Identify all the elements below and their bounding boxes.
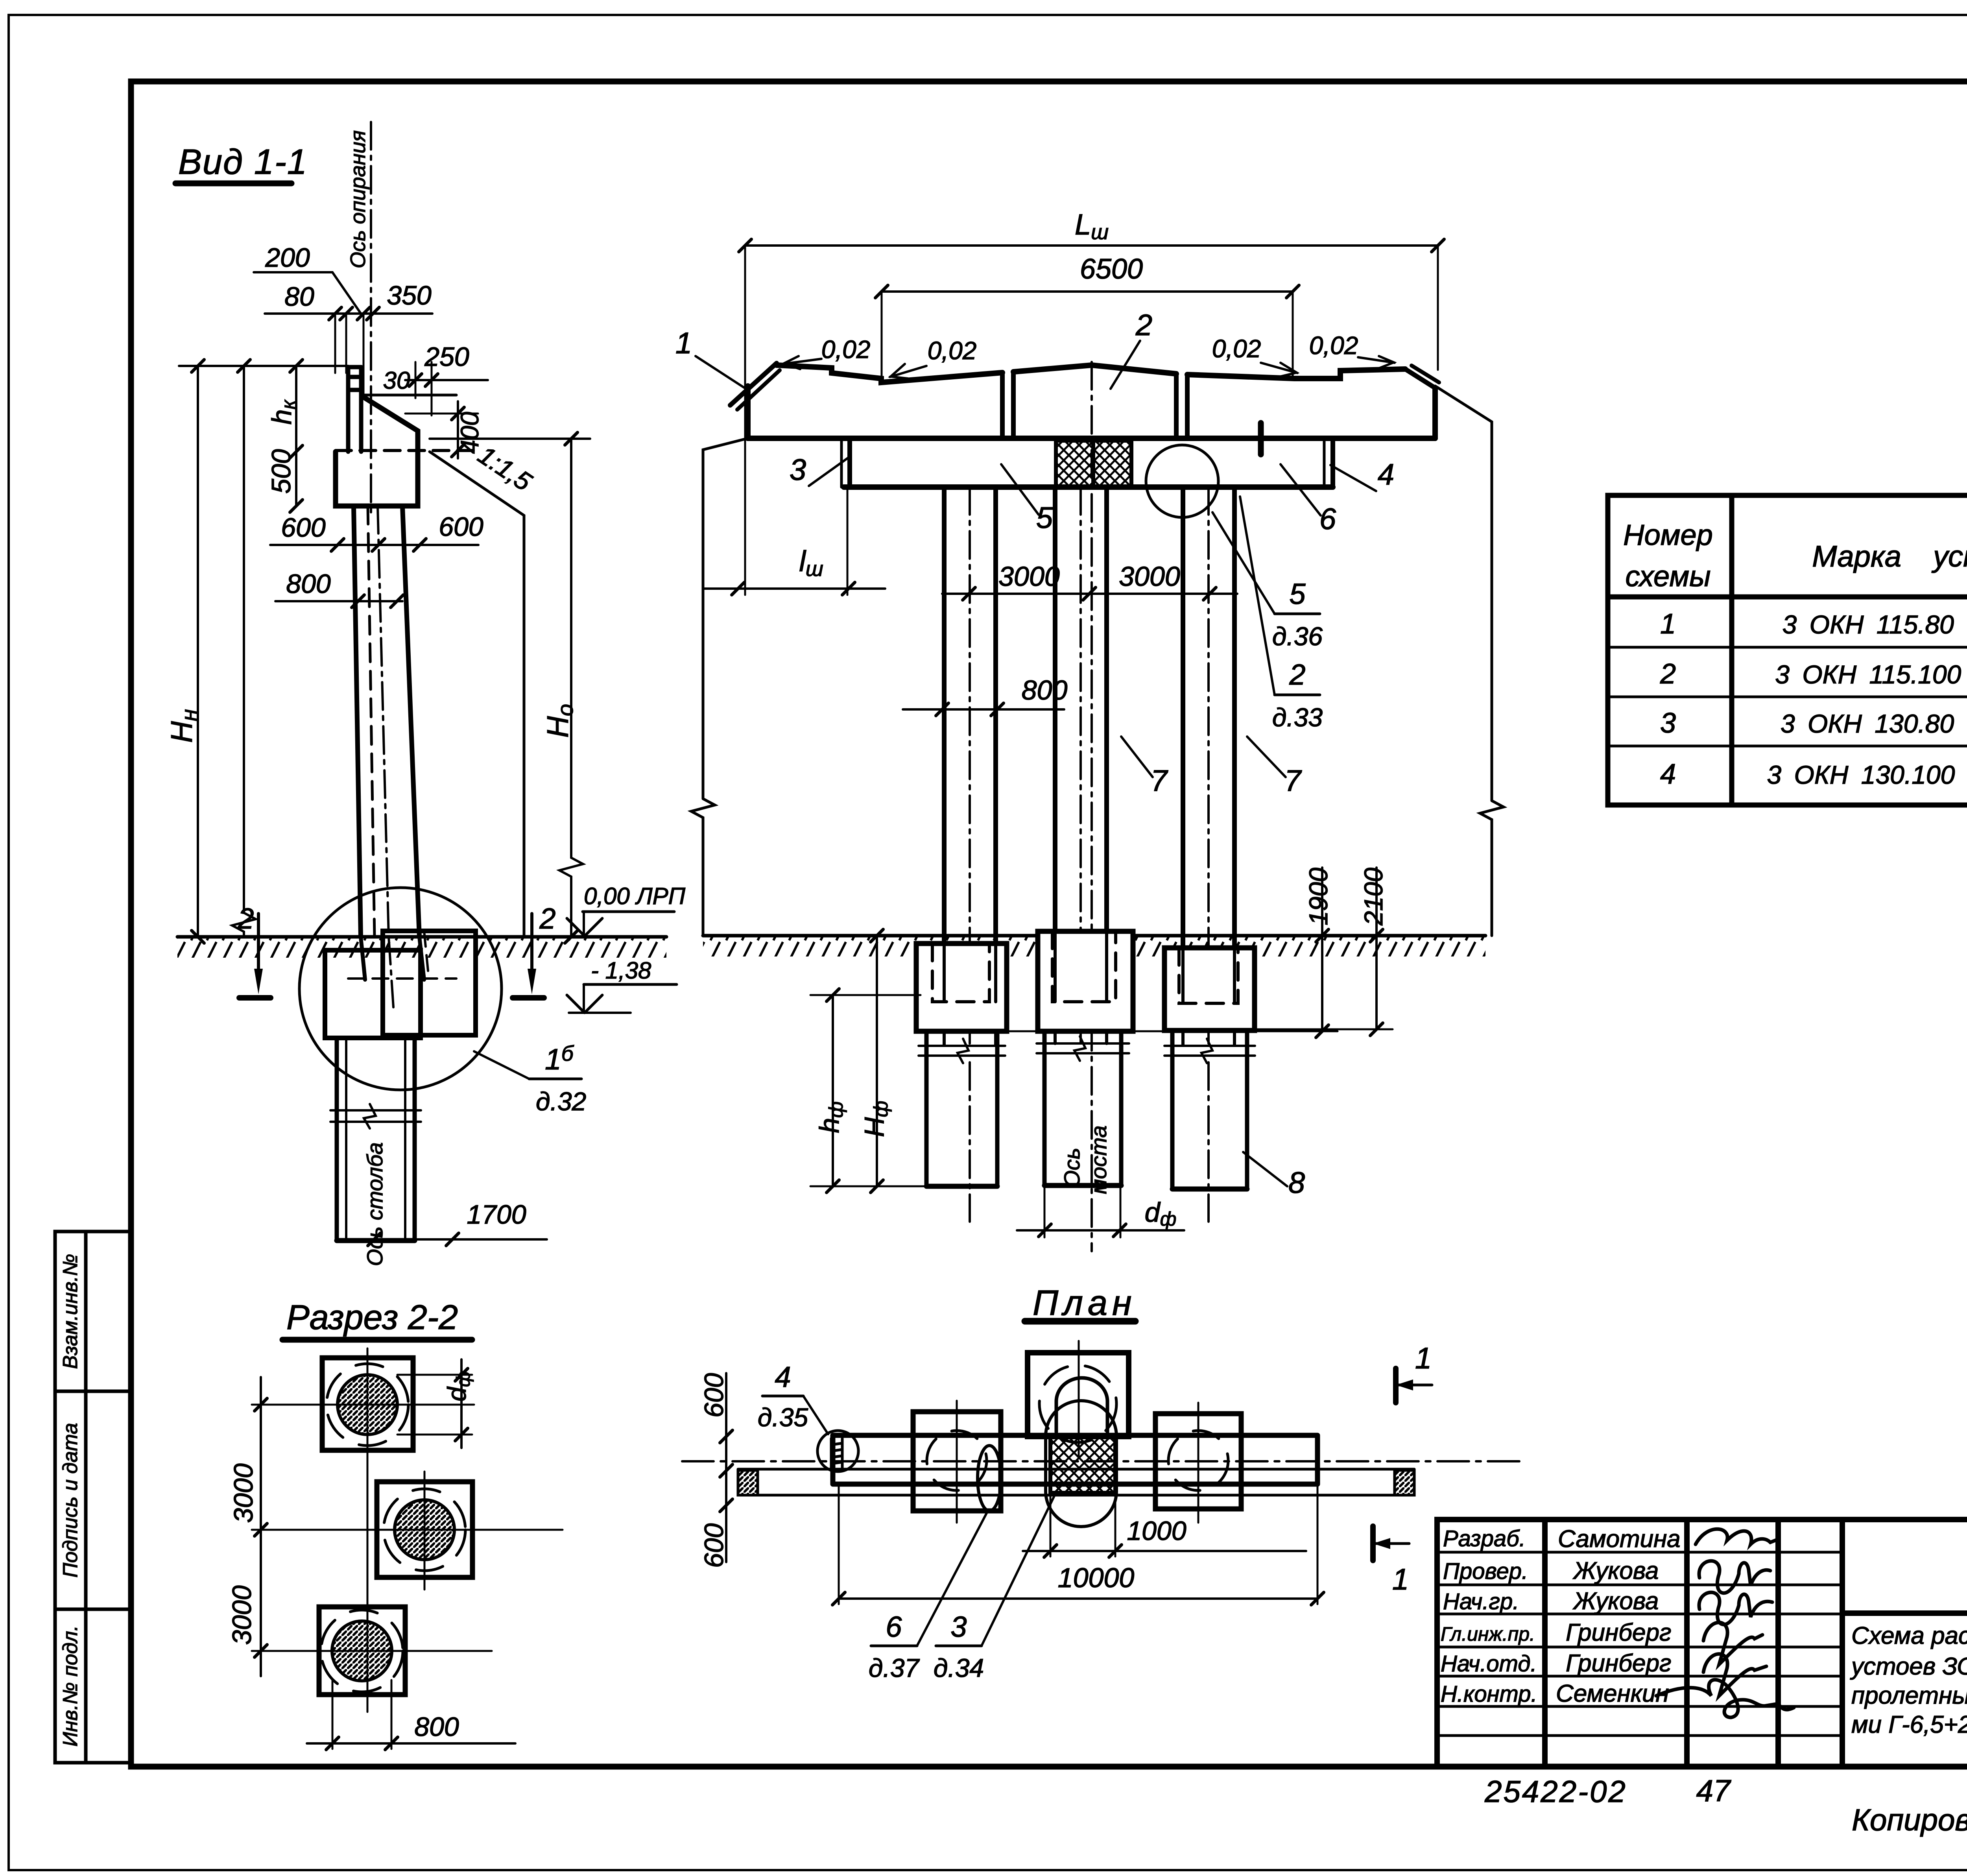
dim 800 bottom	[307, 1742, 515, 1745]
svg-text:500: 500	[266, 449, 296, 494]
dim 800	[275, 600, 402, 602]
svg-text:600: 600	[281, 513, 326, 543]
right wing and embankment edge	[1435, 386, 1504, 936]
svg-text:Схема расположения элементов: Схема расположения элементов	[1851, 1622, 1967, 1649]
svg-text:3: 3	[1660, 707, 1676, 739]
title block role labels	[1441, 1526, 1537, 1707]
description text	[1850, 1622, 1967, 1738]
cap block	[336, 452, 418, 506]
svg-text:ми Г-6,5+2* 0,75; Г- 6,5+ 2 х: ми Г-6,5+2* 0,75; Г- 6,5+ 2 х 1,5	[1851, 1711, 1967, 1738]
bearing oval	[978, 1446, 1001, 1511]
dim Hf	[876, 936, 878, 1186]
svg-text:6: 6	[1319, 502, 1336, 536]
svg-text:2: 2	[1135, 308, 1152, 342]
svg-text:800: 800	[1022, 675, 1068, 705]
svg-text:10000: 10000	[1058, 1562, 1135, 1593]
Ho top reference	[430, 438, 590, 440]
big oblong	[1046, 1401, 1116, 1527]
title block names	[1556, 1525, 1681, 1707]
svg-text:1900: 1900	[1304, 868, 1333, 925]
title block row lines	[1437, 1552, 1967, 1736]
top reference line	[179, 365, 348, 367]
section square 2	[377, 1482, 472, 1577]
table header texts	[1623, 508, 1967, 596]
table rows	[1660, 608, 1967, 790]
pile 1	[942, 487, 947, 944]
svg-text:д.35: д.35	[758, 1403, 808, 1432]
column continuation into foundation	[361, 937, 424, 980]
df extension lines	[1044, 1185, 1046, 1237]
Ho dim line with break	[559, 439, 583, 937]
svg-text:5: 5	[1289, 578, 1306, 610]
svg-text:4: 4	[775, 1361, 791, 1393]
hatched wall section plan	[1050, 1435, 1115, 1493]
cabinet wall	[348, 367, 361, 452]
bearing shelf	[361, 394, 456, 397]
foundation block A	[916, 944, 1007, 1031]
ground line left view	[177, 935, 666, 939]
signature squiggles	[1656, 1529, 1794, 1717]
svg-text:Ось столба: Ось столба	[362, 1142, 387, 1266]
dim 800	[903, 708, 1064, 711]
hidden socket lines	[348, 977, 456, 980]
svg-text:Ось опирания: Ось опирания	[346, 130, 370, 268]
svg-text:- 1,38: - 1,38	[591, 957, 651, 984]
svg-text:Гринберг: Гринберг	[1566, 1619, 1672, 1646]
slab body	[745, 386, 751, 438]
column axis	[378, 506, 389, 937]
hidden top of cap	[336, 449, 478, 452]
svg-text:600: 600	[439, 512, 483, 542]
svg-text:1: 1	[1415, 1342, 1432, 1375]
title block frame	[1437, 1520, 1967, 1767]
dim df section	[460, 1359, 463, 1448]
svg-text:1: 1	[1660, 608, 1676, 640]
bearing pad ladder left	[831, 1438, 842, 1469]
svg-text:0,02: 0,02	[821, 335, 871, 364]
svg-text:Вид 1-1: Вид 1-1	[178, 142, 308, 182]
dim hf	[832, 995, 834, 1186]
svg-text:схемы: схемы	[1625, 560, 1711, 593]
dim 600 600	[270, 544, 478, 546]
pile shafts below blocks	[926, 1030, 1247, 1189]
svg-text:2: 2	[1289, 658, 1305, 691]
dashed circle in center square	[1039, 1365, 1116, 1442]
svg-text:План: План	[1033, 1283, 1137, 1323]
svg-text:д.36: д.36	[1272, 622, 1323, 651]
svg-text:устоев ЗОКН LшНн под плитные: устоев ЗОКН LшНн под плитные	[1850, 1653, 1967, 1680]
foundation block C	[1164, 948, 1255, 1030]
center foundation square plan	[1028, 1353, 1129, 1437]
bridge axis	[1091, 362, 1093, 1251]
svg-text:3000: 3000	[229, 1463, 258, 1523]
ground line main	[703, 934, 1485, 938]
slab joints	[1002, 372, 1187, 438]
shaft axes	[969, 1062, 971, 1222]
foundation block B	[1038, 931, 1133, 1031]
slab top surface	[777, 365, 1002, 382]
svg-text:д.32: д.32	[536, 1087, 586, 1116]
Hn dimension line	[197, 366, 199, 937]
slab right bevel	[1405, 369, 1435, 388]
dim line 80/350	[265, 312, 432, 315]
svg-text:350: 350	[387, 281, 432, 310]
bearing circle left end	[817, 1431, 858, 1472]
svg-text:7: 7	[1151, 764, 1168, 798]
svg-text:пролетные строения с габарита-: пролетные строения с габарита-	[1851, 1682, 1967, 1709]
svg-text:3 ОКН 130.100 - 2а - Ф: 3 ОКН 130.100 - 2а - Ф	[1767, 760, 1967, 789]
common vertical axis	[367, 1348, 369, 1712]
svg-text:1000: 1000	[1127, 1516, 1186, 1546]
cap beam	[840, 440, 843, 487]
svg-text:Взам.инв.№: Взам.инв.№	[59, 1254, 82, 1369]
svg-text:0,02: 0,02	[1309, 331, 1358, 360]
svg-text:6: 6	[886, 1610, 902, 1643]
svg-text:6500: 6500	[1080, 253, 1143, 285]
svg-text:2: 2	[237, 902, 254, 935]
svg-text:Разраб.: Разраб.	[1443, 1526, 1526, 1551]
foundation block front	[325, 950, 421, 1038]
dim df	[1017, 1229, 1184, 1232]
pile below foundation	[337, 1035, 415, 1241]
svg-text:4: 4	[1660, 759, 1676, 790]
svg-text:Гл.инж.пр.: Гл.инж.пр.	[1441, 1623, 1535, 1645]
svg-text:3000: 3000	[227, 1585, 257, 1645]
svg-text:Н.контр.: Н.контр.	[1441, 1681, 1537, 1707]
svg-text:47: 47	[1696, 1773, 1731, 1808]
svg-text:800: 800	[286, 569, 331, 599]
pile break	[330, 1104, 421, 1128]
svg-text:д.37: д.37	[869, 1653, 920, 1682]
svg-text:Инв.№ подл.: Инв.№ подл.	[59, 1625, 82, 1747]
svg-text:3000: 3000	[1119, 561, 1180, 592]
corbel slope	[363, 397, 418, 452]
slab left bevel	[730, 363, 777, 405]
left pile cap square	[913, 1412, 1001, 1511]
svg-text:Самотина: Самотина	[1558, 1525, 1681, 1553]
svg-text:5: 5	[1036, 501, 1053, 535]
expansion pad hatched	[1056, 441, 1131, 487]
svg-text:3000: 3000	[998, 561, 1060, 592]
svg-text:Семенкин: Семенкин	[1556, 1680, 1669, 1707]
long thin wall	[738, 1469, 1414, 1495]
svg-text:3: 3	[790, 453, 806, 487]
dim 3000 3000	[942, 593, 1237, 595]
bearing axis line	[370, 122, 372, 515]
section square 3	[319, 1607, 405, 1695]
svg-text:80: 80	[284, 282, 314, 312]
svg-text:д.33: д.33	[1272, 703, 1323, 732]
dim 1700	[338, 1238, 547, 1241]
svg-text:0,02: 0,02	[928, 336, 977, 365]
dim 3000 3000 vertical	[260, 1377, 262, 1676]
svg-text:4: 4	[1378, 458, 1394, 491]
svg-text:800: 800	[414, 1712, 459, 1742]
svg-text:1700: 1700	[467, 1200, 526, 1230]
hk/500 dim line	[295, 366, 297, 506]
svg-text:3: 3	[950, 1610, 967, 1643]
column outline	[354, 506, 361, 937]
pile 2	[1053, 487, 1057, 932]
svg-text:д.34: д.34	[934, 1653, 984, 1682]
svg-text:2: 2	[1660, 658, 1676, 690]
svg-text:Жукова: Жукова	[1572, 1557, 1659, 1584]
svg-text:25422-02: 25422-02	[1484, 1774, 1627, 1809]
detail circle 1b	[299, 888, 502, 1090]
section mark 1 bottom	[1370, 1526, 1376, 1560]
section mark 1 top	[1393, 1368, 1399, 1403]
left wing and embankment edge	[691, 438, 748, 936]
shaft breaks	[919, 1039, 1005, 1063]
svg-text:400: 400	[456, 412, 484, 454]
svg-text:1: 1	[675, 327, 692, 360]
bearing detail circle	[1146, 445, 1218, 517]
svg-text:3 ОКН 130.80 - 2а -Ф: 3 ОКН 130.80 - 2а -Ф	[1781, 709, 1967, 738]
plan axis	[682, 1460, 1526, 1462]
dims 1900 2100	[1321, 868, 1323, 1031]
cap beam band	[833, 1435, 1317, 1484]
oblong pile top	[1056, 1378, 1107, 1432]
section square 1	[322, 1358, 413, 1450]
foundation block rear	[383, 931, 476, 1035]
svg-text:600: 600	[699, 1373, 729, 1418]
svg-text:2: 2	[539, 902, 555, 935]
svg-text:Марка устоя: Марка устоя	[1812, 540, 1967, 573]
svg-text:Копировал:: Копировал:	[1852, 1802, 1967, 1837]
dim 6500	[882, 290, 1293, 293]
svg-text:Гринберг: Гринберг	[1566, 1650, 1672, 1677]
svg-text:3 ОКН 115.100 - 2 - Ф: 3 ОКН 115.100 - 2 - Ф	[1775, 660, 1967, 689]
svg-text:Разрез 2-2: Разрез 2-2	[286, 1298, 458, 1337]
left margin strip: Vzam.inv cell	[55, 1232, 131, 1763]
svg-text:1: 1	[1392, 1563, 1409, 1596]
svg-text:Провер.: Провер.	[1443, 1558, 1528, 1584]
svg-text:моста: моста	[1086, 1125, 1111, 1194]
dim 400	[405, 413, 478, 415]
svg-text:200: 200	[265, 243, 310, 273]
svg-text:Ось: Ось	[1059, 1148, 1084, 1187]
svg-text:Жукова: Жукова	[1572, 1588, 1659, 1615]
dimensions table	[1608, 495, 1967, 805]
Lsh dimension	[745, 244, 1438, 247]
second dim line with break	[232, 366, 256, 937]
slope 1:1.5	[430, 452, 524, 937]
svg-text:2100: 2100	[1359, 868, 1388, 926]
right pile cap square	[1155, 1414, 1241, 1509]
svg-text:7: 7	[1284, 764, 1302, 798]
svg-text:0,00 ЛРП: 0,00 ЛРП	[584, 883, 686, 909]
svg-text:Нач.гр.: Нач.гр.	[1443, 1589, 1519, 1614]
svg-text:Нач.отд.: Нач.отд.	[1441, 1651, 1537, 1677]
svg-text:600: 600	[699, 1523, 729, 1568]
svg-text:Номер: Номер	[1623, 519, 1713, 551]
svg-text:8: 8	[1288, 1166, 1305, 1200]
svg-text:0,02: 0,02	[1212, 334, 1261, 363]
bearing pin	[1258, 423, 1264, 454]
pile 3	[1181, 487, 1185, 949]
svg-text:3 ОКН 115.80 - 2 - Ф: 3 ОКН 115.80 - 2 - Ф	[1782, 610, 1967, 639]
hidden pile line	[368, 506, 375, 937]
svg-text:Подпись и дата: Подпись и дата	[59, 1423, 82, 1577]
